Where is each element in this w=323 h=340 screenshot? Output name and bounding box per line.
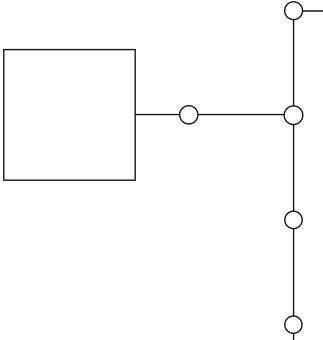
wire <box>293 20 295 106</box>
wire <box>198 114 284 116</box>
wire <box>293 125 295 212</box>
node N2 <box>284 106 303 125</box>
wire <box>303 10 323 12</box>
wire <box>135 114 180 116</box>
node N0 <box>285 2 303 20</box>
wire <box>293 333 295 340</box>
node N1 <box>180 106 198 124</box>
node N4 <box>285 316 302 333</box>
block B1 <box>4 50 135 181</box>
wire <box>293 229 295 317</box>
node N3 <box>285 211 302 228</box>
